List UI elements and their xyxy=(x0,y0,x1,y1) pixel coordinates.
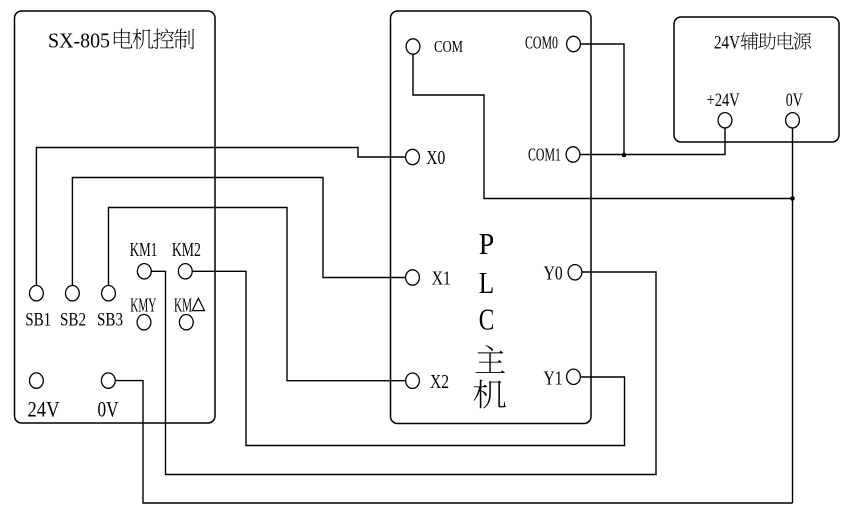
label KM-delta xyxy=(174,295,205,317)
wire: 24V-supply 0V vertical down to bottom net xyxy=(792,128,794,503)
svg-text:COM: COM xyxy=(434,37,463,56)
terminal X2 xyxy=(406,373,420,388)
wire: COM0 stub down to COM1 net xyxy=(581,44,624,155)
svg-text:P: P xyxy=(479,226,495,261)
terminal COM1 xyxy=(566,147,580,162)
terminal 0V (control box) xyxy=(101,373,115,388)
svg-text:SB3: SB3 xyxy=(97,310,123,331)
wire: KM1 to Y0 xyxy=(151,271,656,474)
svg-text:C: C xyxy=(479,302,495,337)
terminal X1 xyxy=(406,270,420,285)
svg-text:KM2: KM2 xyxy=(172,239,201,261)
terminal 0V (supply) xyxy=(786,113,800,128)
wire: KM2 to Y1 xyxy=(192,271,624,445)
title 24V auxiliary power xyxy=(714,32,811,53)
junction: COM0/COM1 net xyxy=(622,153,627,158)
svg-text:COM1: COM1 xyxy=(528,145,561,165)
junction: 0V net at y=198.5 xyxy=(790,196,795,201)
svg-text:+24V: +24V xyxy=(707,90,740,111)
wire: COM to node under 0V (y=198.5 net) xyxy=(413,54,793,198)
wire: SB2 to X1 xyxy=(72,178,405,286)
terminal KM-delta xyxy=(179,315,193,330)
svg-text:KMY: KMY xyxy=(130,295,156,317)
svg-text:SX-805: SX-805 xyxy=(48,28,110,52)
svg-text:Y0: Y0 xyxy=(544,263,563,285)
svg-text:X0: X0 xyxy=(426,148,445,169)
svg-text:Y1: Y1 xyxy=(544,367,563,389)
terminal KM1 xyxy=(137,264,151,279)
svg-text:COM0: COM0 xyxy=(525,32,558,52)
wire: COM1 to +24V xyxy=(580,128,725,154)
terminal Y0 xyxy=(568,265,582,280)
terminal X0 xyxy=(406,149,420,164)
svg-text:0V: 0V xyxy=(786,90,803,111)
wire: SB1 to X0 xyxy=(36,148,405,286)
svg-text:KM1: KM1 xyxy=(130,239,158,261)
svg-text:24V: 24V xyxy=(28,396,60,421)
terminal COM0 xyxy=(567,36,581,51)
terminal SB3 xyxy=(102,286,116,301)
svg-text:KM: KM xyxy=(174,295,192,317)
box: 24V auxiliary power supply xyxy=(674,17,839,142)
terminal KMY xyxy=(137,315,151,330)
svg-text:L: L xyxy=(479,265,495,300)
box: PLC main unit xyxy=(391,11,592,424)
title SX-805 motor control xyxy=(48,28,194,52)
terminal +24V (supply) xyxy=(718,113,732,128)
svg-text:SB1: SB1 xyxy=(25,310,51,331)
svg-text:0V: 0V xyxy=(98,396,119,421)
title PLC main unit (vertical) xyxy=(474,226,506,409)
svg-text:24V: 24V xyxy=(714,32,740,53)
wire: SB3 to X2 xyxy=(109,208,406,381)
svg-text:X2: X2 xyxy=(430,372,449,393)
terminal Y1 xyxy=(567,369,581,384)
terminal COM xyxy=(406,39,420,54)
terminal SB2 xyxy=(66,286,80,301)
terminal KM2 xyxy=(178,264,192,279)
terminal SB1 xyxy=(30,286,44,301)
wire: control-box 0V to bottom 0V net xyxy=(115,381,792,503)
svg-text:X1: X1 xyxy=(432,269,451,290)
svg-text:SB2: SB2 xyxy=(60,310,86,331)
terminal 24V (control box) xyxy=(30,373,44,388)
box: SX-805 motor control unit xyxy=(15,11,216,423)
